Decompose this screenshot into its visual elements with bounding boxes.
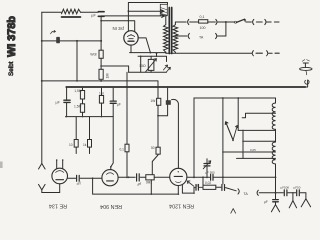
tube VB top pin [110,166,112,168]
jack forks left [39,164,46,170]
svg-text:10: 10 [69,143,73,147]
transformer T1 right winding [173,22,178,52]
grid series cap [195,185,197,191]
wire left vertical main [41,12,43,163]
connector pair arcs [253,19,254,24]
svg-text:0,05: 0,05 [250,148,256,152]
node junction x156.5 [156,52,158,54]
wire to tube C [140,176,170,178]
tube VB internals [106,173,113,175]
svg-text:µF: µF [137,182,141,186]
connector jack arc [216,19,217,24]
svg-text:1k: 1k [83,143,87,147]
svg-text:RE 134: RE 134 [49,202,67,208]
tap lines to coil [242,113,275,117]
connector tap arc right [216,33,217,38]
wire rheostat feed [156,53,158,56]
node junction x225 [225,21,227,23]
wire vertical x101 [100,16,102,69]
coil L2 vertical with loops [275,98,277,103]
curl mark above [51,30,56,33]
wire grid line y20.8 to second riser [101,21,135,32]
wire winding bottom y53.2 [166,52,252,53]
vertical x222.9 [222,98,224,184]
switch arm right [225,122,232,139]
node junction y66 [100,65,102,67]
wire rheostat left vertical [140,56,142,72]
svg-text:1M: 1M [99,91,104,95]
svg-text:1W: 1W [151,99,156,103]
tube V1 internals [127,35,134,37]
ground symbol coil [271,205,279,212]
switch S1 [235,21,237,23]
tube VA pins [57,160,63,169]
node dots cluster [82,86,84,88]
node junction A x101 [100,80,102,82]
hook wire to tube C top [172,99,179,168]
choke Wdr box [99,50,103,58]
wire secondary top y22 [175,21,186,23]
resistor R topchain box [199,20,208,23]
filament arrows right [163,65,167,70]
svg-text:1M: 1M [106,74,110,79]
series cap 1 [283,190,285,196]
rheostat R box [148,59,154,70]
svg-text:µF: µF [264,200,268,204]
electrolytic top lead from bus B [167,87,169,100]
node junction B x158 [157,86,159,88]
grid arrow VC [187,181,194,186]
wire y22 end [267,21,272,23]
tube VC internals [174,175,182,177]
node dots rheostat bus [140,56,142,58]
tube VC envelope [170,168,187,185]
capacitor C1 plates [98,11,104,13]
inductor L1 core bar [62,16,81,18]
svg-text:1,5M: 1,5M [74,105,82,109]
wire heater line y52.6 [130,52,166,54]
wire line y15.9 to transformer arrow [101,14,165,17]
series blocking component on y41 [56,37,60,43]
wire line y41 [42,40,102,42]
inductor L1 zigzag [62,9,81,14]
wire y98 horizontal [194,97,276,99]
resistor Rk2 x89.5 [89,117,91,154]
wire y53.2 end [268,52,272,54]
bottom network under VC [182,185,194,193]
svg-text:Wdr: Wdr [90,53,97,57]
node junction y52.6 [150,52,152,54]
wire tube V1 anode lead [138,38,150,53]
ground symbol right [301,199,310,207]
resistor box B anode [146,175,154,180]
wire line A y80.2 [42,80,158,82]
connector pair y53.2 [252,51,253,56]
svg-text:µF500: µF500 [281,186,290,190]
svg-text:µF: µF [91,13,96,17]
wire line y11.2 to transformer arrow [128,10,164,13]
node junction x101 y20.6 [100,20,102,22]
svg-text:100: 100 [200,26,206,30]
tube VB anode chain [118,176,135,178]
capacitor CB plates [136,174,138,181]
rheostat arrow [146,59,157,72]
svg-text:0M2: 0M2 [146,181,152,185]
node junction y41 x76 [76,40,78,42]
connector jack arc [188,19,189,24]
wire tap y36 [175,35,187,37]
vertical x238.2 tap [237,98,239,130]
drop cap at coil bottom [275,193,277,200]
series cap on anode wire [210,174,212,180]
resistor stack Rg1a [82,87,84,104]
small fork mark bottom left [231,209,236,214]
capacitor Cg right [111,87,113,167]
svg-text:0,02: 0,02 [205,181,211,185]
wire under tube B [93,178,179,194]
svg-text:0,1: 0,1 [120,147,125,151]
svg-text:50: 50 [151,146,155,150]
svg-text:Seibt: Seibt [8,61,15,76]
svg-text:TA: TA [244,192,249,196]
node junctions on anode line [193,176,195,178]
svg-text:REN 1204: REN 1204 [169,202,194,208]
wire to series cap [216,186,221,188]
svg-text:WI 378b: WI 378b [6,16,18,57]
node junction x92.6 [92,177,94,179]
wire rheostat bottom y72.3 [129,71,167,73]
wire top horizontal left [42,11,62,13]
node drop to grid box [202,177,204,187]
tube VA envelope [52,168,68,184]
capacitor C grid series [66,87,68,100]
node junction y41 left [41,40,43,42]
scan smudge left edge [0,162,3,169]
svg-text:NI 3sf: NI 3sf [113,26,125,31]
svg-text:µF: µF [76,182,80,186]
wire y22 [246,21,252,23]
series cap 2 [296,190,298,196]
wire tube V1 bottom lead [130,45,132,53]
wire link y66 [101,66,129,72]
tube V1 envelope [124,31,138,45]
vertical x158 with boxes [152,81,158,174]
resistor R grid 1M box [99,69,103,79]
svg-text:15Ω: 15Ω [139,64,146,68]
antenna symbol right [305,80,307,87]
transformer T1 primary box winding [160,4,167,15]
bus line B y87 thick [66,86,305,88]
svg-text:0,1: 0,1 [200,15,205,19]
node junction x158 y115.8 [157,115,159,117]
wire y22 [190,21,199,23]
svg-text:µF50: µF50 [294,186,301,190]
ground symbol mid [292,193,294,201]
connector pair TA bottom [238,189,239,194]
svg-text:REN 904: REN 904 [100,203,122,209]
resistor Rg2 [101,87,103,117]
electrolytic cap dark [158,105,168,116]
bias drop wire [150,180,152,194]
resistor box x158 top [157,98,161,105]
wire x76 riser [76,41,78,81]
coupling cap A-B [68,177,76,179]
node junction A x41.8 [41,80,43,82]
wire rheostat bus y56.3 [138,56,167,61]
tube VA internals [56,171,64,173]
resistor box bottom [203,185,216,189]
svg-text:TA: TA [199,36,204,40]
wire y192.8 [259,192,283,194]
vertical x194 [193,98,195,178]
tube VB envelope [102,170,118,186]
resistor Rk1 x76 [75,117,77,154]
resistor box x158 low [156,147,160,154]
wire tube top cap riser [127,3,129,32]
wire y22 [208,21,216,23]
resistor Rk3 x127 [126,72,128,177]
transformer T1 core [168,8,170,54]
node junction y41 x101.5 [100,40,102,42]
wire tap corner up [217,22,226,36]
svg-text:1,5M: 1,5M [74,89,82,93]
transformer T1 left winding [164,16,169,53]
wire top horizontal right [81,11,99,13]
wire VC anode y177.3 [187,176,276,178]
resistor stack Rg1b [80,104,84,113]
wire y22 with junction [218,21,235,23]
trimmer cap stub [206,166,208,178]
svg-text:µF: µF [196,183,200,187]
wire top link to transformer [128,3,167,5]
svg-text:µF: µF [117,102,121,106]
cluster bottom bus y116.6 [66,116,114,118]
connector tap arc [188,33,189,38]
